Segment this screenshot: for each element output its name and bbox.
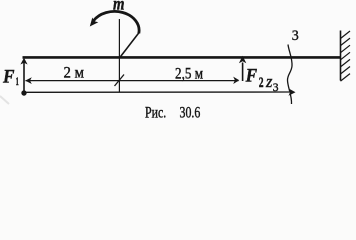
svg-text:z: z — [265, 72, 273, 91]
svg-text:30.6: 30.6 — [180, 105, 201, 122]
svg-text:Рис.: Рис. — [145, 105, 166, 122]
svg-text:3: 3 — [292, 28, 299, 44]
svg-text:3: 3 — [273, 82, 279, 94]
svg-text:F: F — [2, 66, 15, 87]
svg-text:F: F — [245, 66, 258, 87]
svg-text:2,5 м: 2,5 м — [175, 65, 203, 82]
svg-text:m: m — [113, 0, 125, 13]
svg-text:1: 1 — [16, 74, 19, 88]
svg-text:2 м: 2 м — [64, 65, 85, 82]
svg-text:2: 2 — [259, 75, 264, 91]
